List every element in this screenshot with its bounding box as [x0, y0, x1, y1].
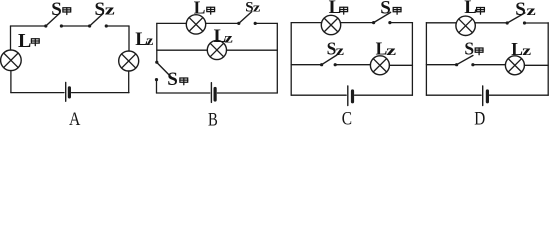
wire C top-middle segment: [340, 22, 372, 24]
switch S乙 (panel C, open): [320, 55, 337, 66]
wire A bottom-left segment: [11, 92, 64, 94]
label L甲 (panel A): [18, 30, 39, 52]
label S乙 (panel D): [515, 0, 536, 20]
svg-text:S: S: [380, 0, 391, 19]
label L乙 (panel D): [511, 39, 531, 59]
wire C right side: [411, 23, 413, 96]
label L乙 (panel C): [376, 39, 397, 59]
svg-text:S: S: [167, 69, 178, 90]
wire C middle branch right: [389, 64, 412, 66]
battery (panel B): [211, 83, 215, 103]
wire B left upper (top corner to switch): [156, 23, 158, 61]
wire D top-right segment: [526, 22, 548, 24]
svg-text:D: D: [474, 108, 485, 129]
switch S甲 (panel A, open): [44, 13, 63, 27]
svg-text:z: z: [386, 44, 396, 59]
label L甲 (panel C): [329, 0, 348, 18]
wire C middle branch left: [291, 64, 320, 66]
wire D right side: [547, 23, 549, 95]
wire B middle branch left: [157, 49, 208, 51]
wire D bottom-right segment: [490, 94, 549, 96]
wire C bottom-left segment: [291, 94, 346, 96]
svg-text:S: S: [464, 38, 474, 58]
wire D bottom-left segment: [426, 94, 481, 96]
wire D middle branch center: [475, 64, 506, 66]
lamp L乙 (panel B): [207, 40, 226, 59]
wire B right side: [276, 23, 278, 93]
battery (panel A): [66, 82, 70, 101]
wire C top-left segment: [291, 22, 321, 24]
wire B middle branch right: [227, 49, 278, 51]
svg-text:z: z: [253, 1, 261, 15]
wire C top-right segment: [392, 22, 413, 24]
lamp L甲 (panel C): [321, 15, 340, 34]
label L甲 (panel D): [464, 0, 484, 18]
svg-text:z: z: [336, 44, 344, 59]
lamp L甲 (panel A): [1, 50, 22, 71]
wire B left lower: [156, 81, 158, 93]
battery (panel C): [348, 86, 353, 106]
wire A right upper: [128, 26, 130, 51]
label L乙 (panel B): [214, 26, 233, 47]
battery (panel D): [483, 86, 488, 106]
wire B top-left segment: [157, 22, 187, 24]
wire A top-middle segment: [63, 25, 88, 27]
wire C left side: [290, 23, 292, 96]
switch S乙 (panel B, open): [237, 12, 257, 25]
svg-text:z: z: [146, 34, 153, 49]
lamp L甲 (panel B): [186, 15, 205, 34]
svg-text:z: z: [224, 31, 232, 46]
svg-text:S: S: [515, 0, 526, 20]
switch S乙 (panel A, open): [88, 13, 108, 27]
switch S甲 (panel C, open): [372, 12, 392, 24]
wire B top-middle segment: [206, 22, 238, 24]
svg-text:A: A: [69, 109, 81, 129]
switch S甲 (panel D, open): [455, 56, 475, 67]
svg-text:L: L: [194, 0, 206, 18]
switch S乙 (panel D, open): [506, 13, 527, 25]
svg-text:z: z: [522, 44, 531, 59]
wire D middle branch right: [524, 64, 548, 66]
label S甲 (panel A): [51, 0, 70, 20]
label S甲 (panel B): [167, 69, 187, 90]
wire A bottom-right segment: [72, 92, 129, 94]
lamp L甲 (panel D): [456, 16, 475, 35]
label S甲 (panel C): [380, 0, 401, 19]
label L乙 (panel A): [135, 29, 153, 50]
lamp L乙 (panel A): [119, 51, 139, 71]
wire D top-left segment: [426, 22, 456, 24]
wire A left upper: [10, 26, 12, 50]
label S乙 (panel B): [245, 0, 261, 16]
wire A left lower: [10, 71, 12, 93]
svg-text:B: B: [208, 110, 218, 130]
label S乙 (panel A): [95, 0, 116, 20]
label L甲 (panel B): [194, 0, 215, 18]
svg-text:z: z: [526, 4, 535, 19]
wire A right lower: [128, 71, 130, 93]
wire A top-right segment: [108, 25, 129, 27]
wire B top-right segment: [257, 22, 278, 24]
label S甲 (panel D): [464, 38, 483, 58]
svg-text:L: L: [18, 30, 31, 52]
svg-text:C: C: [342, 108, 352, 129]
wire D middle branch left: [426, 64, 455, 66]
wire D left side: [425, 23, 427, 96]
wire B bottom-left segment: [157, 92, 210, 94]
lamp L乙 (panel C): [370, 56, 389, 75]
wire C middle branch center: [337, 64, 371, 66]
lamp L乙 (panel D): [505, 56, 524, 75]
wire B bottom-right segment: [217, 92, 277, 94]
wire C bottom-right segment: [355, 94, 413, 96]
svg-text:L: L: [464, 0, 477, 18]
wire D top-middle segment: [475, 22, 506, 24]
svg-text:S: S: [95, 0, 106, 20]
label S乙 (panel C): [327, 39, 344, 59]
wire A top-left segment: [11, 25, 45, 27]
switch S甲 (panel B, open, on left wire): [155, 61, 172, 82]
svg-text:S: S: [51, 0, 62, 20]
svg-text:z: z: [105, 3, 115, 19]
